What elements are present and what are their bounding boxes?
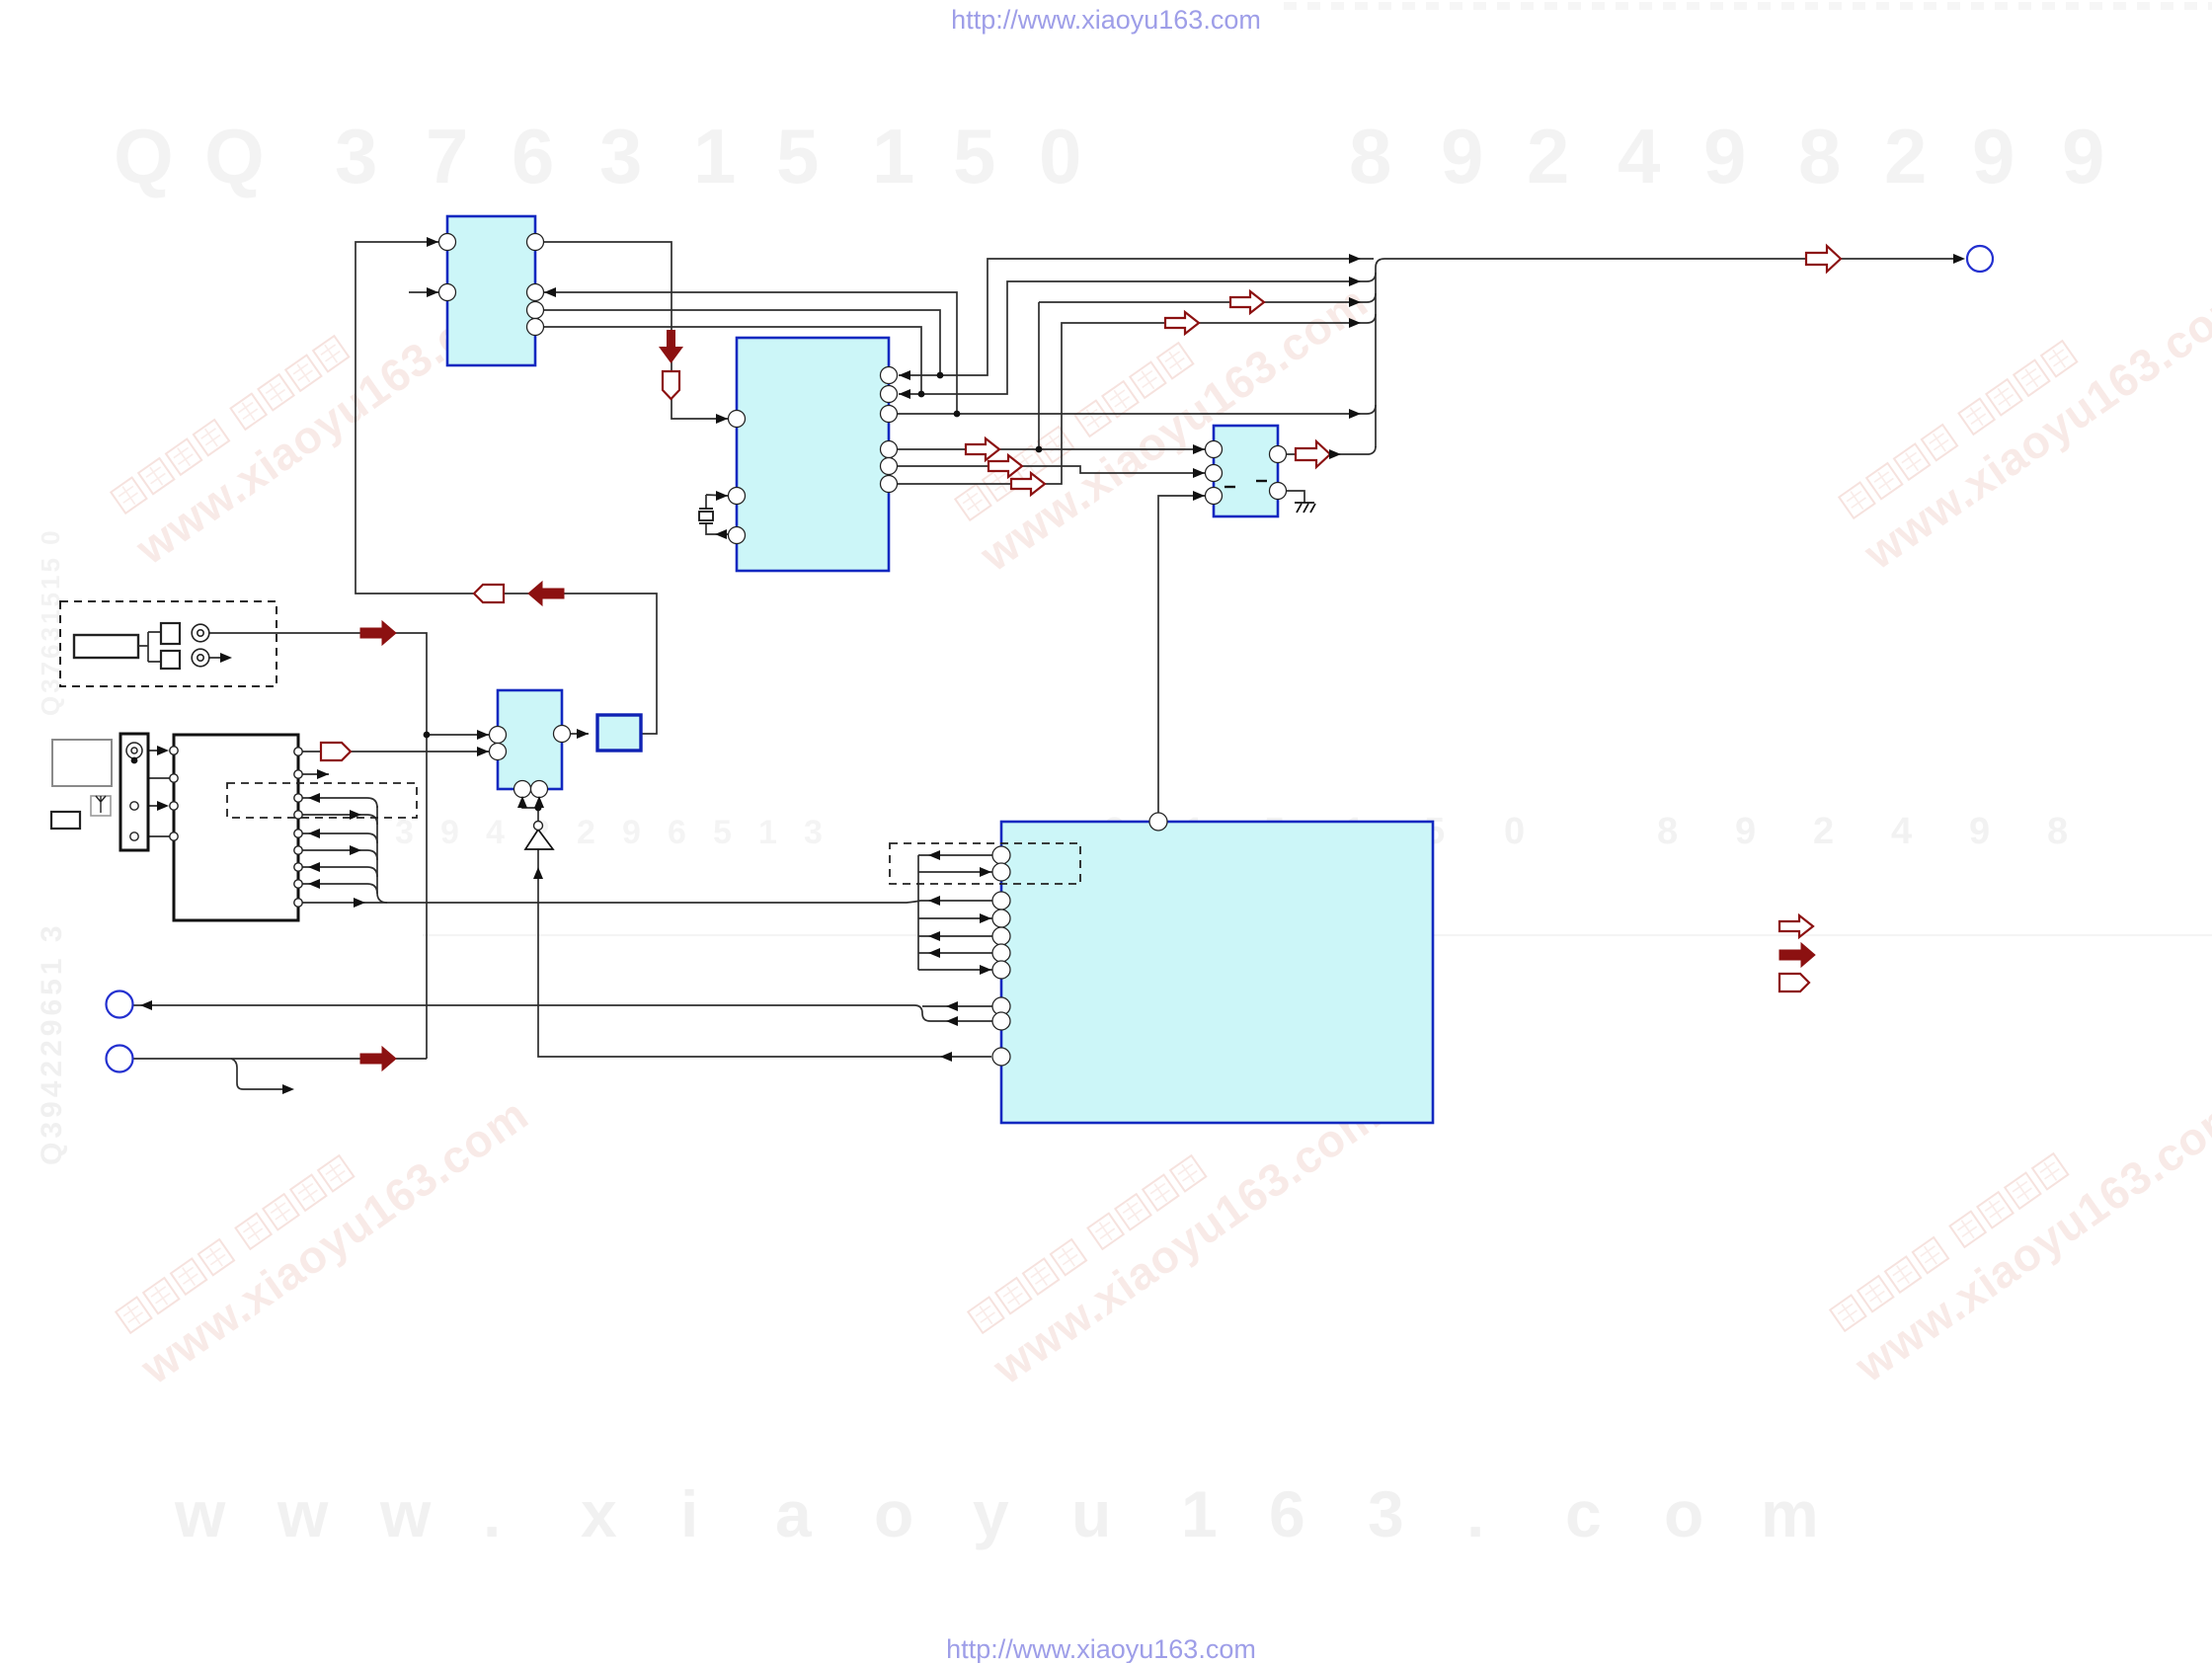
svg-text:u: u [1071,1477,1111,1550]
wire D-out to E-in [562,733,589,735]
svg-text:1: 1 [1181,1477,1218,1550]
tuner right pin 1 [294,748,302,755]
tuner right pin 4 [294,811,302,819]
tuner left pin 3 [170,802,178,810]
dashed enclosure at LB pins [227,783,417,818]
rca jack 1 outer [192,624,209,642]
tuner block (white) [174,735,298,920]
svg-text:4: 4 [1891,811,1912,852]
tuner right pin 9 [294,899,302,907]
red open arrow C-out [1296,441,1330,467]
C inner dash 1 [1224,486,1235,488]
tuner left pin 4 [170,832,178,840]
arrowhead terminal2 branch stub [282,1084,294,1094]
red filled arrow on jack line [360,621,396,645]
svg-text:0: 0 [1039,113,1081,199]
wire F bus stub y=866 [918,854,992,856]
wire jack1 to vertical [209,633,427,1059]
junction net1 [937,372,944,379]
svg-text:1: 1 [758,814,777,851]
arrowhead net3 before bus [1349,297,1361,307]
wire A-out1 to B-in1 via vertical [535,242,728,419]
IC block D (mixer) [498,690,562,789]
crystal X1 body [699,512,713,520]
svg-text:9: 9 [440,814,459,851]
wire F bus stub y=948 [918,935,992,937]
arrowhead into A pin1 [427,237,438,247]
IC block F (main processor) [1001,822,1433,1123]
svg-text:c: c [1565,1477,1602,1550]
red open arrow net4 [1165,312,1199,334]
red filled arrow on terminal2 line [360,1047,396,1070]
wire LB bus stub y=844 [298,833,377,843]
wire LB bus stub y=878 [298,867,377,877]
arrowhead into B crystal pin [716,491,728,501]
wire jack2 stub [209,657,228,659]
wire C-in3 from F top pin [1158,496,1205,822]
crystal X1 plates [699,509,713,523]
svg-text:9: 9 [2062,113,2104,199]
pink diagonal watermark 3 [1830,239,2212,579]
legend filled arrow [1779,943,1815,967]
red open arrow B-out6 [1011,473,1045,495]
F left pin 7 [992,961,1010,979]
strip jack outer [126,743,142,758]
B right pin 5 [881,458,898,475]
arrowhead LB stub pin2 [317,769,329,779]
arrowhead into C pin3 [1193,491,1205,501]
wire D bottom pins join [522,789,539,808]
arrowhead net1 before bus [1349,254,1361,264]
wire C-out2 to ground [1278,491,1304,503]
red filled down arrow [659,330,683,363]
arrowhead LB bus 844 [308,829,320,838]
B left pin 3 [729,527,746,544]
arrowhead into terminal1 [140,1000,152,1010]
pink diagonal watermark 6 [1821,1052,2212,1391]
B right pin 6 [881,476,898,493]
wire LB bus stub y=808 [298,798,377,808]
arrowhead F stub 965 [928,948,940,958]
svg-text:w: w [174,1477,226,1550]
arrowhead net5 before bus [1349,409,1361,419]
red open arrow before terminal [1806,246,1841,272]
dashed enclosure at F pins [890,843,1080,884]
red open arrow B-out5 [988,455,1022,477]
wire LB bus vertical [377,806,387,903]
svg-text:3: 3 [395,814,414,851]
arrowhead LB bus 895 [308,879,320,889]
D bottom pin 1 [514,781,531,798]
svg-text:2: 2 [1813,811,1834,852]
wire F bus stub y=982 [918,969,992,971]
antenna box [91,796,111,816]
arrowhead LB bus 878 [308,862,320,872]
arrowhead before output terminal [1953,254,1965,264]
svg-text:1: 1 [693,113,736,199]
svg-text:i: i [680,1477,698,1550]
svg-text:2: 2 [577,814,595,851]
svg-text:9: 9 [622,814,641,851]
svg-text:Q394229651 3: Q394229651 3 [36,921,68,1165]
svg-text:1: 1 [872,113,914,199]
contact square 2 [161,651,180,669]
legend open pentagon [1779,974,1809,991]
C left pin 1 [1206,441,1223,458]
svg-text:9: 9 [1703,113,1746,199]
svg-text:8: 8 [1657,811,1678,852]
A left pin 1 [439,234,456,251]
arrowhead LB bus 861 [350,845,361,855]
F top pin [1149,813,1167,831]
F left pin 1 [992,846,1010,864]
svg-text:4: 4 [486,814,505,851]
wire A-out row4 to net2 [535,327,921,394]
C inner dash 2 [1256,480,1267,482]
tuner right pin 2 [294,770,302,778]
red open shield down [663,371,679,399]
arrowhead into E [577,729,589,739]
B right pin 3 [881,406,898,423]
wire crystal top to B pin [706,495,728,509]
red open pentagon at tuner out [321,743,351,760]
arrowhead LB bottom long [354,898,365,908]
svg-text:http://www.xiaoyu163.com: http://www.xiaoyu163.com [951,5,1261,35]
wire F bus stub y=930 [918,917,992,919]
svg-text:3: 3 [804,814,823,851]
red open pentagon on loop [474,585,504,602]
svg-text:2: 2 [1884,113,1927,199]
buffer output circle [534,822,543,831]
B right pin 2 [881,386,898,403]
junction jack/D-in1 [424,732,431,739]
small black rect [51,812,80,829]
F left pin 2 [992,863,1010,881]
cartridge body rect [74,635,138,658]
svg-text:5: 5 [713,814,732,851]
IC block E (small) [597,715,641,751]
tuner right pin 5 [294,830,302,837]
arrowhead into D pin1 [477,730,489,740]
wire terminal2 to vertical [132,1058,427,1060]
tuner left pin 2 [170,774,178,782]
ground symbol [1295,503,1315,513]
wire LB bus stub y=825 [298,815,377,825]
junction net3 [1036,446,1043,453]
wire F bus stub y=965 [918,952,992,954]
D left pin 2 [490,744,507,760]
arrowhead F stub 912 [928,896,940,906]
arrowhead into D bottom pin2 [534,796,544,808]
tuner right pin 8 [294,880,302,888]
svg-text:6: 6 [668,814,686,851]
arrowhead into A pin2 [427,287,438,297]
arrowhead F stub 866 [928,850,940,860]
svg-text:m: m [1761,1477,1819,1550]
arrowhead into D bottom pin1 [517,796,527,808]
wire terminal1 to F pins [132,1005,992,1021]
wire C-out1 to bus [1278,446,1376,454]
arrowhead after C-out arrow [1329,449,1341,459]
svg-text:3: 3 [599,113,642,199]
red open arrow net3 [1230,291,1264,313]
C right pin 2 [1270,483,1287,500]
D bottom pin 2 [531,781,548,798]
wire cartridge to bracket [138,632,161,662]
wire A-out row3 to net1 [535,310,940,375]
pink diagonal watermark 4 [107,1054,537,1393]
C left pin 3 [1206,488,1223,505]
arrowhead crystal bottom [715,529,727,539]
arrowhead F pin 1019 [946,1001,958,1011]
wire strip pin3 to LB [138,805,165,807]
tuner right pin 6 [294,846,302,854]
svg-text:3: 3 [335,113,377,199]
F left pin 5 [992,927,1010,945]
arrowhead into C pin2 [1193,468,1205,478]
svg-text:5: 5 [953,113,995,199]
svg-text:w: w [379,1477,432,1550]
contact square 1 [161,623,180,644]
rca jack 2 outer [192,649,209,667]
tuner right pin 7 [294,863,302,871]
svg-text:4: 4 [1618,113,1660,199]
junction D bottom [535,805,542,812]
A right pin 3 [527,302,544,319]
F left pin 10 [992,1048,1010,1066]
svg-text:.: . [483,1477,501,1550]
arrowhead F stub 948 [928,931,940,941]
B right pin 4 [881,441,898,458]
wire LB bottom pin long into F pin3 [298,901,992,903]
buffer amp triangle [525,830,553,849]
pink diagonal watermark 2 [946,241,1377,581]
wire B-out4 to C-in1 [889,448,1205,450]
junction net2 [918,391,925,398]
output terminal circle right [1967,246,1993,272]
wire E-out loop to A-in [355,242,657,734]
arrowhead LB bus 808 [308,793,320,803]
junction net5 [954,411,961,418]
faint top edge marks [1284,2,1297,10]
arrowhead F pin 1034 [946,1016,958,1026]
pink diagonal watermark 1 [102,234,532,574]
svg-text:9: 9 [1972,113,2014,199]
wire F bus vertical [917,855,919,970]
tuner left pin 1 [170,747,178,754]
arrowhead strip to LB1 [157,746,169,755]
svg-text:o: o [874,1477,913,1550]
svg-text:Q: Q [114,113,174,199]
red open arrow B-out4 [966,438,999,460]
arrowhead strip to LB3 [157,801,169,811]
strip jack inner [131,748,137,753]
svg-text:9: 9 [1735,811,1756,852]
legend open arrow [1779,915,1813,937]
arrowhead into B right pin1 [899,370,910,380]
connector strip CN1 [120,734,148,850]
wire F bus stub y=883 [918,871,992,873]
A left pin 2 [439,284,456,301]
arrowhead net4 before bus [1349,318,1361,328]
svg-text:7: 7 [426,113,468,199]
svg-text:0: 0 [1504,811,1525,852]
wire strip pin4 to LB [138,835,174,837]
F left pin 8 [992,997,1010,1015]
label box gray [52,740,112,786]
pink diagonal watermark 5 [959,1054,1389,1393]
rca jack 1 inner [197,630,203,636]
svg-text:2: 2 [1527,113,1569,199]
junction strip jack [131,757,138,764]
wire jack junction to D-in1 [427,734,489,736]
wire strip junction to LB pin2 [134,759,174,778]
F left pin 6 [992,944,1010,962]
arrowhead into C pin1 [1193,444,1205,454]
rca jack 2 inner [197,655,203,661]
wire LB bus stub y=895 [298,884,377,894]
strip pin 4 [130,832,138,840]
wire net A-in3 from right [544,292,957,414]
wire crystal bottom to B pin [706,523,737,534]
svg-text:y: y [973,1477,1009,1550]
dashed enclosure top left source group [60,601,276,686]
F left pin 9 [992,1012,1010,1030]
A right pin 2 [527,284,544,301]
wire F pin stub 1019 [922,1005,992,1007]
svg-text:8: 8 [2047,811,2068,852]
wire net2 B-out2 up [899,273,1376,394]
svg-text:6: 6 [512,113,554,199]
tuner right pin 3 [294,794,302,802]
wire strip jack to LB pin1 [142,750,165,752]
svg-text:3: 3 [1368,1477,1404,1550]
svg-text:o: o [1664,1477,1703,1550]
svg-text:x: x [581,1477,617,1550]
wire bus vertical right and to terminal [1376,259,1953,447]
B left pin 1 [729,411,746,428]
input terminal circle 1 [107,991,133,1018]
C left pin 2 [1206,465,1223,482]
B right pin 1 [881,367,898,384]
wire triangle output up [537,808,539,822]
IC block C (right) [1214,426,1278,516]
arrowhead net2 before bus [1349,277,1361,286]
IC block A (top-left) [447,216,535,365]
A right pin 1 [527,234,544,251]
svg-text:9: 9 [1441,113,1483,199]
arrowhead into A right pin2 [544,287,556,297]
arrowhead F stub 982 [980,965,991,975]
wire B-out5 to C-in2 [889,466,1205,473]
red filled left arrow on loop [528,582,564,605]
arrowhead F stub 930 [980,913,991,923]
wire LB-out1 to D-in2 [298,751,489,752]
svg-text:w: w [276,1477,329,1550]
wire net1 B-out1 to output terminal [899,259,1374,375]
strip pin 3 [130,802,138,810]
svg-text:6: 6 [1269,1477,1305,1550]
wire triangle input from F [538,849,991,1057]
arrowhead into buffer [533,867,543,879]
svg-text:a: a [775,1477,813,1550]
arrowhead F stub 883 [980,867,991,877]
F left pin 3 [992,892,1010,910]
arrowhead into D pin2 [477,747,489,756]
C right pin 1 [1270,446,1287,463]
A right pin 4 [527,319,544,336]
wire net3 vertical and top [1039,293,1376,449]
wire stub into A pin2 [409,291,438,293]
D left pin 1 [490,727,507,744]
arrowhead jack2 stub [220,653,232,663]
B left pin 2 [729,488,746,505]
svg-text:8: 8 [1798,113,1841,199]
svg-text:Q: Q [204,113,265,199]
wire terminal2 branch stub [231,1059,290,1089]
arrowhead LB bus 825 [350,810,361,820]
wire B-out6 up to top [889,314,1376,484]
svg-text:.: . [1466,1477,1484,1550]
input terminal circle 2 [107,1046,133,1072]
faint horizontal artifact line [423,934,2212,936]
svg-text:http://www.xiaoyu163.com: http://www.xiaoyu163.com [946,1634,1256,1663]
svg-text:8: 8 [1349,113,1391,199]
svg-text:9: 9 [1969,811,1990,852]
wire LB bus stub y=861 [298,850,377,860]
IC block B (center) [737,338,889,571]
arrowhead F pin 1070 [940,1052,952,1062]
D right pin [554,726,571,743]
arrowhead into B pin1 [716,414,728,424]
arrowhead into B right pin2 [899,389,910,399]
wire LB stub pin2 [298,773,329,775]
svg-text:5: 5 [776,113,819,199]
F left pin 4 [992,910,1010,927]
wire net5 B-out3 long [889,405,1376,414]
antenna symbol [96,796,106,813]
